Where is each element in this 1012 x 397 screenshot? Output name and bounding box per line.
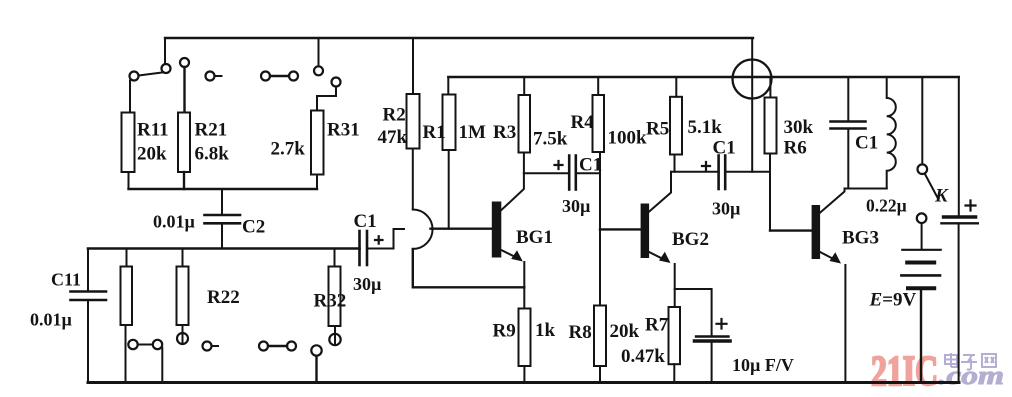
svg-text:5.1k: 5.1k xyxy=(688,117,723,138)
wire R3 bottom lead xyxy=(523,153,525,174)
switch K lower contact xyxy=(917,213,927,223)
svg-text:C1: C1 xyxy=(354,211,377,232)
wire BG3 emitter to ground xyxy=(844,265,846,383)
watermark dianziwang char 2 xyxy=(961,355,977,370)
svg-text:C2: C2 xyxy=(242,217,265,238)
switch contact S1h xyxy=(332,78,341,87)
capacitor 10uF bypass xyxy=(695,337,731,342)
svg-text:21IC: 21IC xyxy=(871,349,938,395)
wire C1 stage3 to jack node xyxy=(725,171,770,173)
wire bypass cap to ground xyxy=(711,341,713,383)
wire BG3 emitter xyxy=(819,252,834,260)
wire BG3 collector xyxy=(819,189,844,214)
switch K arm xyxy=(925,173,938,198)
watermark dianziwang char 1 xyxy=(945,353,957,367)
wire left rail lower xyxy=(87,300,89,383)
wire R32 bottom lead xyxy=(334,326,336,345)
wire R1 bottom to base xyxy=(448,150,450,229)
svg-text:R4: R4 xyxy=(571,112,595,133)
wire middle signal bus xyxy=(88,247,360,250)
wire left rail upper xyxy=(87,249,89,292)
plus sign of C1 stage3 xyxy=(702,162,710,170)
wire rail corner to R1 xyxy=(447,77,449,95)
svg-text:R21: R21 xyxy=(195,120,228,141)
wire R7 to ground xyxy=(673,364,675,382)
wire section1 bottom bus xyxy=(129,188,318,190)
svg-text:10µ F/V: 10µ F/V xyxy=(732,355,794,375)
svg-text:R2: R2 xyxy=(383,105,406,126)
svg-text:E=9V: E=9V xyxy=(869,290,917,311)
wire K to battery xyxy=(921,223,923,249)
wire S2d stub xyxy=(212,345,219,347)
wire hop over base wire xyxy=(413,210,433,250)
wire BG1 collector xyxy=(500,173,524,211)
svg-text:R1: R1 xyxy=(423,122,446,143)
wire BG1 emitter to R9 xyxy=(523,262,525,309)
resistor R7 xyxy=(669,307,681,364)
switch contact S2g xyxy=(329,334,340,345)
svg-text:47k: 47k xyxy=(378,127,408,148)
wire BG2 base xyxy=(600,228,642,230)
svg-text:K: K xyxy=(934,186,949,207)
wire C2 bottom lead xyxy=(221,223,223,248)
wire BG1 base xyxy=(431,227,493,229)
resistor R6 xyxy=(765,98,777,154)
switch contact S2b xyxy=(153,340,162,349)
resistor R5 xyxy=(670,97,682,155)
capacitor C2 xyxy=(205,215,241,223)
wire right rail lower xyxy=(958,223,960,382)
wire R31 bottom xyxy=(316,175,318,190)
svg-text:30k: 30k xyxy=(784,117,814,138)
svg-text:0.01µ: 0.01µ xyxy=(153,212,196,232)
wire R22 top lead xyxy=(182,249,184,267)
wire R6 bottom to BG3 base xyxy=(769,154,771,231)
switch contact S2e xyxy=(259,342,268,351)
plus sign of C1 input xyxy=(375,236,383,244)
svg-text:C11: C11 xyxy=(51,270,81,290)
svg-text:2.7k: 2.7k xyxy=(271,139,306,160)
wire rail drop to switch S1g xyxy=(318,38,320,66)
switch contact S1b xyxy=(162,64,171,73)
wire S2a to S2b xyxy=(138,344,153,346)
switch contact S2h xyxy=(311,345,321,355)
wire tank cap upper lead xyxy=(847,77,849,122)
resistor R32 xyxy=(329,267,341,327)
svg-text:R6: R6 xyxy=(784,138,807,159)
resistor R3 xyxy=(519,95,531,153)
wire collector node to C1 stage3 xyxy=(671,171,719,173)
wire switch K stem xyxy=(921,77,923,164)
svg-text:0.22µ: 0.22µ xyxy=(866,196,907,216)
resistor R4 xyxy=(593,95,605,152)
wire S2e to S2f xyxy=(268,345,287,347)
wire R6 top lead xyxy=(769,77,771,98)
plus sign of output cap xyxy=(966,201,976,211)
svg-text:R7: R7 xyxy=(645,315,669,336)
plus sign of C1 stage2 xyxy=(555,161,563,169)
wire bottom ground rail xyxy=(88,381,959,384)
wire S1e to S1f xyxy=(270,75,289,77)
plus sign of bypass cap xyxy=(717,319,727,329)
svg-text:30µ: 30µ xyxy=(353,274,382,294)
wire R32 top lead xyxy=(334,249,336,267)
capacitor C11 xyxy=(71,292,107,301)
arrow BG3 emitter xyxy=(830,252,842,263)
svg-text:R31: R31 xyxy=(327,120,360,141)
svg-text:20k: 20k xyxy=(610,321,640,342)
svg-text:1M: 1M xyxy=(459,122,487,143)
wire R21 bottom xyxy=(183,172,185,189)
svg-text:7.5k: 7.5k xyxy=(533,129,568,150)
arrow BG1 emitter xyxy=(511,250,523,261)
resistor R1 xyxy=(443,95,456,151)
wire C1 to base step xyxy=(367,229,404,249)
wire right rail upper xyxy=(958,77,960,217)
wire R2 tap from top rail xyxy=(412,38,414,94)
capacitor C1 input 30u xyxy=(360,231,368,265)
svg-text:BG2: BG2 xyxy=(672,229,709,250)
resistor R9 xyxy=(519,309,531,367)
capacitor C1 stage2 30u xyxy=(569,156,576,190)
svg-text:R3: R3 xyxy=(493,122,516,143)
watermark dianziwang char 3 xyxy=(982,354,996,367)
svg-text:R9: R9 xyxy=(493,321,516,342)
wire R3 top lead xyxy=(523,77,525,95)
wire R2 lead to emitter node xyxy=(413,249,525,287)
switch contact S1a xyxy=(130,72,139,81)
wire BG1 emitter xyxy=(500,250,517,258)
wire S1d stub xyxy=(215,75,222,77)
wire tank bottom xyxy=(845,188,887,190)
wire R4 top lead xyxy=(597,77,599,95)
svg-text:6.8k: 6.8k xyxy=(195,144,230,165)
svg-text:1k: 1k xyxy=(535,320,556,341)
wire BG2 emitter xyxy=(648,252,664,260)
wire S2b to ground rail xyxy=(161,348,163,383)
transistor BG3 bar xyxy=(813,206,820,258)
wire S2h to ground rail xyxy=(315,356,317,383)
wire BG3 base xyxy=(770,229,813,231)
wire S1a to S1b xyxy=(139,73,163,76)
switch contact S1f xyxy=(289,72,298,81)
switch contact S1e xyxy=(261,72,270,81)
wire R5 top lead xyxy=(675,77,677,97)
wire second rail xyxy=(448,76,959,78)
switch contact S2f xyxy=(287,342,296,351)
wire C1 stage2 to base node xyxy=(576,172,600,174)
wire R11 bottom xyxy=(128,172,130,189)
svg-text:20k: 20k xyxy=(137,144,167,165)
inductor L1 xyxy=(887,77,896,189)
resistor R22 xyxy=(177,267,189,326)
wire C2 top lead xyxy=(221,189,223,215)
svg-text:BG1: BG1 xyxy=(516,227,553,248)
svg-text:0.01µ: 0.01µ xyxy=(30,310,73,330)
wire top supply rail xyxy=(165,37,753,39)
svg-text:30µ: 30µ xyxy=(562,196,591,216)
wire R22 bottom lead xyxy=(182,325,184,344)
wire R9 to ground xyxy=(523,366,525,383)
transistor BG1 bar xyxy=(493,203,501,257)
wire S1c to R21 xyxy=(183,67,185,113)
svg-text:R8: R8 xyxy=(569,322,592,343)
transistor BG2 bar xyxy=(642,205,649,258)
switch contact S1g xyxy=(314,66,323,75)
wire R2 lower lead xyxy=(412,149,414,210)
svg-text:R32: R32 xyxy=(314,291,347,312)
svg-text:R5: R5 xyxy=(646,119,669,140)
capacitor output electrolytic xyxy=(941,217,977,223)
svg-text:R11: R11 xyxy=(137,120,169,141)
battery E xyxy=(901,250,940,288)
svg-text:30µ: 30µ xyxy=(712,199,741,219)
svg-text:C1: C1 xyxy=(855,133,878,154)
wire Rb1 bottom lead xyxy=(125,325,127,383)
wire R5 bottom lead xyxy=(674,155,676,172)
capacitor C1 tank 0.22u xyxy=(831,122,866,129)
wire Rb1 top lead xyxy=(126,249,128,267)
wire battery to ground xyxy=(920,288,922,382)
resistor R2 xyxy=(407,94,420,149)
resistor R8 xyxy=(594,306,606,367)
jack circle xyxy=(733,60,772,99)
switch contact S2c xyxy=(177,333,188,344)
wire tank cap lower lead xyxy=(847,129,849,189)
wire through jack vertical xyxy=(751,38,753,172)
svg-text:.com: .com xyxy=(938,361,1004,390)
wire R4 to BG2 base to R8 xyxy=(599,152,601,306)
wire BG2 emitter to R7 xyxy=(674,264,676,307)
svg-text:R22: R22 xyxy=(207,287,240,308)
wire S1h to R31 xyxy=(317,87,336,111)
switch contact S2a xyxy=(128,340,137,349)
svg-text:0.47k: 0.47k xyxy=(621,346,665,367)
wire rail drop to switch S1b xyxy=(164,38,166,64)
svg-text:100k: 100k xyxy=(608,128,648,149)
svg-text:BG3: BG3 xyxy=(842,228,879,249)
svg-text:C1: C1 xyxy=(579,155,602,176)
resistor R21 xyxy=(178,113,190,173)
switch contact S2d xyxy=(203,342,212,351)
arrow BG2 emitter xyxy=(659,252,671,263)
wire BG2 collector xyxy=(648,172,671,213)
switch contact S1c xyxy=(180,58,189,67)
resistor R31 xyxy=(311,111,324,175)
resistor R11 xyxy=(122,113,135,173)
wire S1a to R11 xyxy=(129,81,131,113)
svg-text:C1: C1 xyxy=(713,138,736,159)
switch K upper contact xyxy=(918,164,928,174)
resistor Rb1 xyxy=(121,267,133,326)
wire R8 to ground xyxy=(599,366,601,383)
wire collector node to C1b xyxy=(524,172,569,174)
switch contact S1d xyxy=(206,72,215,81)
wire emitter branch to bypass cap xyxy=(675,289,712,337)
capacitor C1 stage3 30u xyxy=(719,156,726,190)
